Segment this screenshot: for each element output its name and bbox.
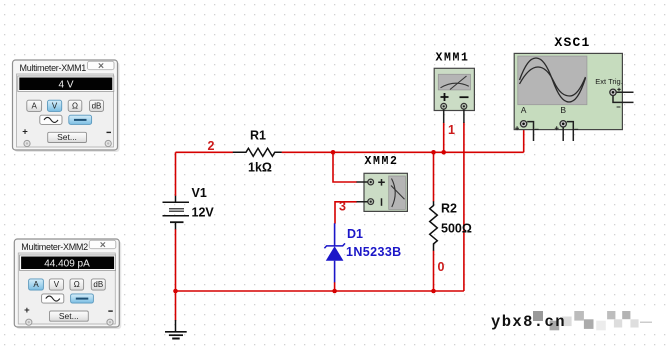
battery V1 [163,196,190,230]
wire XMM2 minus return to D1 (node 3) [335,202,357,224]
watermark mosaic blocks [533,311,652,330]
wire V1 bottom to ground [175,229,177,321]
svg-text:1: 1 [448,123,455,137]
svg-text:V1: V1 [192,186,207,200]
instrument panel Multimeter-XMM2 [14,239,121,329]
wire D1 anode to bottom rail [334,282,336,291]
svg-text:+: + [24,305,30,316]
value 1kOhm [248,161,272,175]
value 1N5233B [346,245,402,259]
XSC1 pin stubs [527,92,633,141]
junction XMM2 branch [331,150,336,155]
svg-text:dB: dB [92,101,102,110]
zener diode D1 [324,223,345,282]
svg-text:Multimeter-XMM1: Multimeter-XMM1 [20,63,87,73]
svg-text:XMM1: XMM1 [435,52,469,65]
svg-text:A: A [33,280,39,289]
svg-text:1N5233B: 1N5233B [346,245,402,259]
svg-text:Ext Trig.: Ext Trig. [595,77,623,86]
svg-text:Multimeter-XMM2: Multimeter-XMM2 [21,242,88,252]
label XMM2 [364,155,398,168]
wire XMM2 plus branch from junction [333,152,357,182]
wire XMM1 plus drop [443,122,445,152]
svg-text:A: A [32,101,38,110]
wire R1 right to scope A column (node 1) [282,151,524,153]
svg-text:3: 3 [339,200,346,214]
svg-text:XMM2: XMM2 [364,155,398,168]
svg-text:ybx8.cn: ybx8.cn [491,313,566,331]
label XSC1 [554,35,590,50]
label R2 [441,202,457,216]
svg-text:Set...: Set... [57,132,77,142]
svg-text:500Ω: 500Ω [441,222,472,236]
watermark text ybx8.cn [491,313,566,331]
svg-text:1kΩ: 1kΩ [248,161,272,175]
junction bottom rail left [173,289,178,294]
svg-text:+: + [22,126,28,137]
wire R2 bottom lead (node 0) [433,251,435,292]
junction bottom rail R2 [431,289,436,294]
value 12V [192,206,215,220]
svg-text:B: B [560,105,566,115]
multimeter symbol XMM1 [434,68,474,110]
svg-text:XSC1: XSC1 [554,35,590,50]
svg-text:Ω: Ω [74,280,80,289]
resistor R2 [430,201,438,251]
value 500Ohm [441,222,472,236]
label XMM1 [435,52,469,65]
label R1 [250,129,266,143]
svg-text:A: A [521,105,527,115]
svg-text:D1: D1 [347,227,363,241]
multimeter symbol XMM2 [364,173,407,211]
ground [165,320,187,339]
oscilloscope XSC1 [514,53,623,130]
node label 2 [208,139,215,153]
wire XMM1 minus vertical to bottom rail [463,122,465,291]
wire bottom ground rail [176,290,464,292]
svg-text:R2: R2 [441,202,457,216]
watermark band [488,308,672,333]
junction bottom rail D1 [332,289,337,294]
label D1 [347,227,363,241]
node label 0 [438,260,445,274]
svg-text:44.409 pA: 44.409 pA [44,258,90,269]
svg-text:2: 2 [208,139,215,153]
svg-text:dB: dB [93,280,103,289]
junction XMM1 plus [441,150,446,155]
instrument panel Multimeter-XMM1 [13,60,120,152]
wire scope A channel drop [523,127,525,152]
XMM2 pin stubs [357,182,368,202]
wire node 2 horizontal segment [176,151,234,153]
svg-text:V: V [54,280,60,289]
resistor R1 [233,148,282,156]
label V1 [192,186,207,200]
svg-text:Set...: Set... [59,311,79,321]
svg-text:4 V: 4 V [58,79,73,90]
svg-text:V: V [52,101,58,110]
svg-text:12V: 12V [192,206,215,220]
svg-text:R1: R1 [250,129,266,143]
node label 3 [339,200,346,214]
XMM1 pin stubs [444,110,464,124]
junction node 2/R2 top [431,150,436,155]
svg-text:Ω: Ω [72,101,78,110]
wire R2 top lead (node 1 branch) [433,152,435,201]
svg-text:0: 0 [438,260,445,274]
node label 1 [448,123,455,137]
wire V1 top lead vertical (node 2) [175,152,177,196]
